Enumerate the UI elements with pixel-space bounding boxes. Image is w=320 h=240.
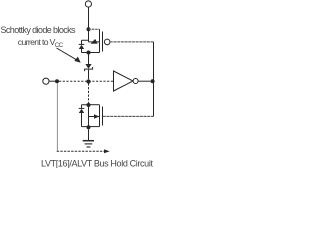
- transistor Q2 channel bar: [99, 105, 101, 127]
- wire node N3 to Q2 dashed vertical: [88, 83, 90, 103]
- diode D1 triangle: [79, 45, 84, 49]
- node N2: [87, 51, 91, 55]
- node N5: [87, 103, 91, 107]
- node N1: [87, 27, 91, 31]
- svg-text:Schottky diode blocks: Schottky diode blocks: [1, 25, 77, 35]
- transistor Q1 channel bar: [99, 29, 101, 52]
- node N7: [151, 79, 155, 83]
- annotation arrowhead bottom: [104, 149, 110, 153]
- op-amp U1 output bubble: [133, 79, 138, 84]
- transistor Q2 gate bar: [102, 107, 104, 126]
- transistor Q1 body lead: [89, 41, 100, 43]
- diode D1 (PMOS body diode) top stub: [82, 40, 89, 44]
- wire Schottky to node N3: [88, 70, 90, 80]
- node N6: [87, 125, 91, 129]
- node N4: [55, 79, 59, 83]
- ground: [83, 140, 94, 142]
- wire input terminal to node N4: [49, 80, 55, 82]
- diode D3 triangle: [79, 109, 84, 113]
- annotation arrowhead: [74, 57, 80, 63]
- transistor Q2 body lead: [89, 116, 100, 118]
- transistor Q2 bottom source lead: [89, 126, 100, 128]
- wire Vcc to node N1: [88, 7, 90, 27]
- op-amp U1 inverter triangle: [114, 71, 134, 91]
- diode D1 cathode bar: [79, 43, 85, 45]
- transistor Q1 gate bubble: [104, 39, 110, 45]
- wire N6 to ground: [88, 129, 90, 140]
- transistor Q2 body arrow: [94, 114, 99, 118]
- svg-text:current to VCC: current to VCC: [18, 37, 64, 49]
- dashed annotation line bottom: [57, 150, 105, 152]
- wire Q2 gate dashed: [103, 115, 154, 117]
- input terminal circle: [43, 78, 49, 84]
- node N3: [86, 79, 90, 83]
- wire Q2 left edge: [88, 105, 90, 127]
- diode D2 (Schottky) triangle: [85, 64, 91, 69]
- wire bus node dashed horizontal: [59, 80, 114, 82]
- Vcc terminal: [85, 1, 91, 7]
- wire right gate bus: [153, 42, 155, 117]
- diode D3 (NMOS body diode) top stub: [82, 105, 89, 108]
- wire N2 to Schottky: [88, 55, 90, 65]
- annotation arrow line: [57, 48, 78, 60]
- diode D3 cathode bar: [79, 107, 85, 109]
- transistor Q1 gate bar: [102, 32, 104, 52]
- diode D1 bottom lead: [82, 49, 88, 53]
- wire N1 to body tee: [88, 29, 90, 42]
- transistor Q1 (PMOS) top source lead: [89, 28, 100, 30]
- gray drop line from N4: [56, 83, 58, 151]
- transistor Q2 (NMOS) top drain lead: [89, 104, 100, 106]
- wire Q1 gate dashed: [110, 41, 154, 43]
- svg-text:LVT[16]/ALVT Bus Hold Circuit: LVT[16]/ALVT Bus Hold Circuit: [41, 158, 153, 168]
- wire inverter output: [138, 80, 150, 82]
- diode D3 bottom lead: [82, 113, 88, 127]
- diode D2 Schottky cathode bar with hooks: [85, 67, 93, 71]
- transistor Q1 body arrow: [91, 39, 98, 44]
- transistor Q1 bottom drain lead: [89, 52, 100, 54]
